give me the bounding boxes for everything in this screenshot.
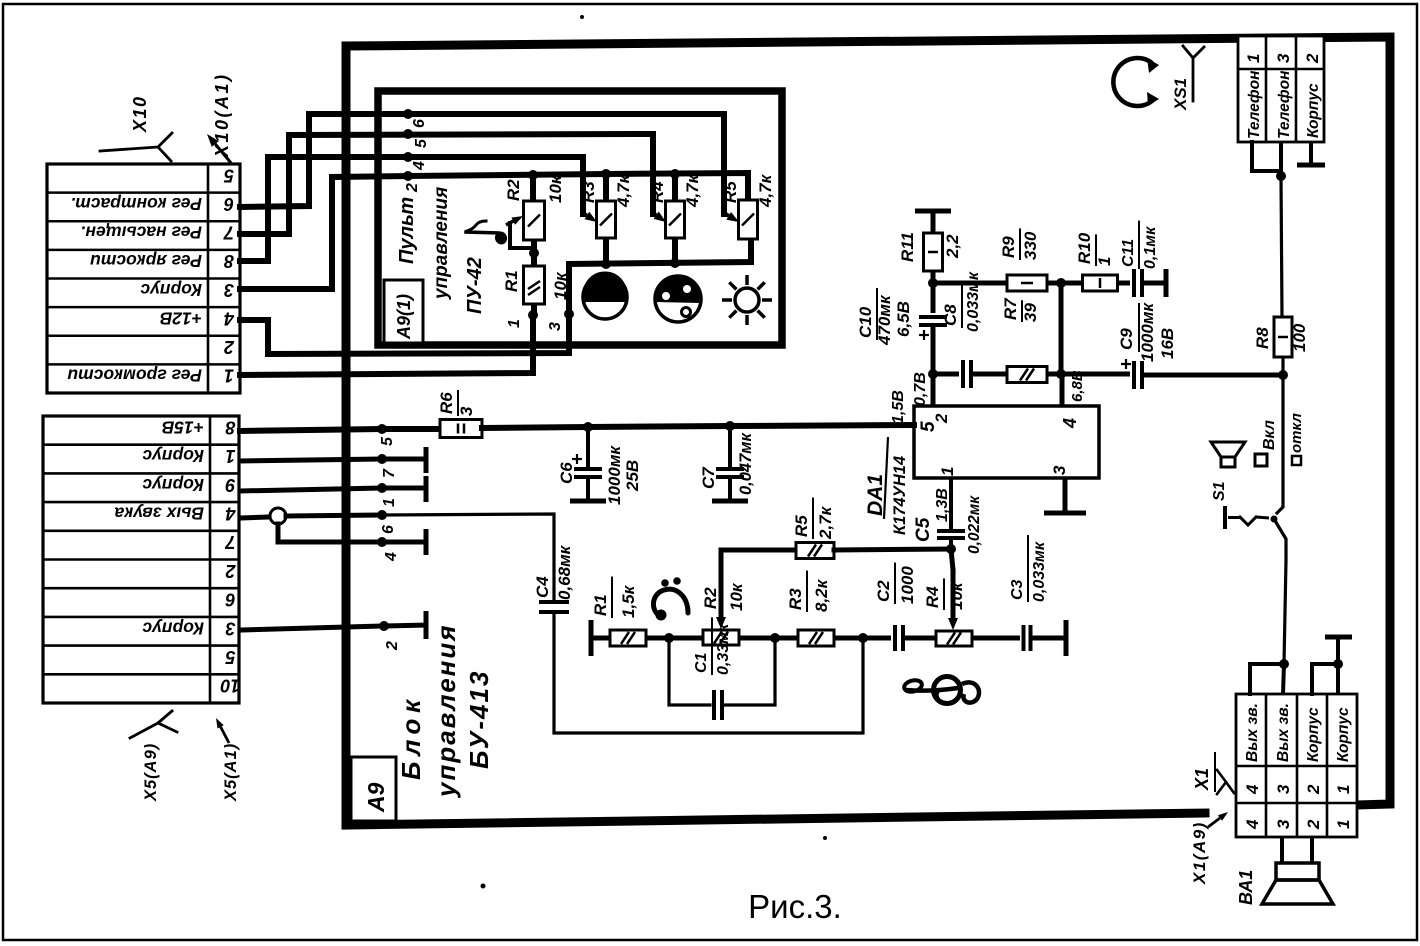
wire R9-R10 [1047,278,1083,288]
svg-text:5: 5 [379,436,396,446]
svg-text:Рег контраст.: Рег контраст. [71,194,202,214]
potentiometer R4 (PU) [648,173,702,238]
svg-text:4: 4 [224,308,235,328]
wire R3-C2 [834,633,891,643]
node A9 pin2 [379,621,401,651]
svg-text:R11: R11 [898,232,917,262]
wire circle loop to pin4 stub [278,524,426,555]
svg-text:7: 7 [381,468,398,478]
wire pots bottom rail [569,238,751,264]
X1 pin4 hook [1250,664,1284,694]
svg-text:X1: X1 [1192,768,1212,791]
svg-text:R3: R3 [786,588,805,610]
svg-text:1000мк: 1000мк [1138,302,1157,362]
connector XS1 table [1238,36,1324,142]
svg-text:C7: C7 [699,466,718,489]
text управления [431,623,461,799]
svg-text:4: 4 [1243,784,1262,795]
svg-text:R7: R7 [1001,297,1020,320]
switch S1 arm [1271,516,1287,665]
svg-text:0,022мк: 0,022мк [966,495,983,554]
node R4 top [670,169,680,179]
svg-text:2: 2 [1304,819,1323,830]
wire C9 to R8 node [1142,373,1283,378]
connector X1 table [1236,694,1357,837]
R2 wiper loop [506,216,534,248]
R4 wiper from C5 node [948,549,958,630]
wire R4 bottom lead [672,238,678,263]
svg-text:2: 2 [1304,784,1323,795]
svg-text:R4: R4 [923,586,942,608]
svg-text:Рег громкости: Рег громкости [67,366,202,386]
R3 wiper arrow [583,212,597,222]
op-amp DA1 box [914,406,1099,478]
X1 pin3 lead [1283,664,1284,694]
label X5(A9) [142,743,160,802]
svg-text:Корпус: Корпус [1305,707,1322,762]
potentiometer R2 (PU) [504,174,565,240]
wire C2-R4 [903,636,936,641]
XS1 fork symbol [1183,46,1204,101]
svg-text:C2: C2 [874,580,893,602]
wire rail2 C8 [933,372,959,377]
wire R8 to node [1281,357,1284,375]
svg-text:4,7к: 4,7к [756,173,775,208]
wire R9/R10 node to pin4 node [1059,283,1064,374]
X1 ground terminal [1325,637,1352,694]
wire R1-R2 [646,633,703,643]
svg-text:1: 1 [1334,820,1353,829]
node PU pin2 [403,171,421,193]
svg-text:3: 3 [224,280,234,300]
wire C8-R7 [971,372,1007,377]
capacitor C5 [913,478,983,554]
svg-text:R1: R1 [502,270,521,292]
node PU pin4 [403,152,428,171]
node PU pin3 [547,309,574,331]
svg-text:4: 4 [1060,418,1080,429]
potentiometer R2 (BU) [701,579,746,645]
node A9 pin7 [377,454,398,478]
wire X5 pin8 +15V rail [240,429,440,431]
label S1 [1211,481,1228,501]
resistor R3 (BU) [786,571,834,646]
wire X10 pin7 to PU pin5 / R4 wiper [240,134,653,234]
text ПУ-42 [464,257,486,314]
node C7 top [725,421,735,431]
node A9 pin6 [377,510,397,534]
svg-text:3: 3 [225,618,235,638]
block A9 (BU-413) outline [346,37,1390,825]
svg-text:8: 8 [225,417,235,437]
svg-text:C11: C11 [1120,239,1137,267]
svg-text:C5: C5 [913,517,934,542]
svg-text:Пульт: Пульт [396,197,418,264]
node PU pin5 [403,129,430,148]
R5 wiper arrow [724,212,739,222]
svg-text:470мк: 470мк [875,294,894,346]
svg-text:4: 4 [225,503,236,523]
wire R3 bottom lead [603,238,609,264]
svg-text:C10: C10 [856,306,875,338]
svg-text:управления: управления [431,187,452,300]
capacitor C1 [669,617,775,720]
audio out circle [270,508,286,524]
svg-text:X5(A1): X5(A1) [222,743,240,802]
svg-text:2: 2 [1303,53,1322,64]
volume note symbol [466,221,509,246]
svg-text:A9: A9 [363,782,389,813]
capacitor C6 [557,427,642,505]
svg-text:8: 8 [224,251,234,271]
X1 fork symbol [1217,770,1234,794]
node A9 pin5 [377,424,396,446]
resistor R5 (BU) [792,498,835,559]
resistor R11 [898,211,962,283]
svg-text:4,7к: 4,7к [614,173,633,208]
svg-text:10к: 10к [947,581,966,610]
svg-text:A9(1): A9(1) [394,294,414,340]
wire R3 top lead [603,174,609,201]
voltage 6,8В [1069,370,1086,402]
svg-text:К174УН14: К174УН14 [891,456,909,535]
capacitor C9 [1117,302,1177,389]
svg-text:Корпус: Корпус [1305,83,1322,138]
svg-text:25В: 25В [623,460,642,492]
svg-text:Рис.3.: Рис.3. [748,888,842,925]
svg-text:1: 1 [938,467,957,476]
svg-text:C6: C6 [557,462,576,484]
label X5(A1) [222,743,240,802]
svg-text:5: 5 [223,165,234,185]
wire circle to pin6 [286,515,382,516]
svg-text:C8: C8 [941,304,960,326]
svg-text:9: 9 [225,475,235,495]
svg-text:2,2: 2,2 [943,234,962,259]
svg-text:2: 2 [224,337,235,357]
svg-text:1: 1 [381,498,398,507]
potentiometer R4 (BU) [923,578,972,646]
node R3 top [601,169,611,179]
svg-text:7: 7 [225,532,236,552]
svg-text:S1: S1 [1211,481,1228,501]
node PU pin6 [403,109,428,128]
svg-text:X1(A9): X1(A9) [1190,821,1209,885]
svg-text:330: 330 [1021,231,1040,260]
svg-text:6: 6 [225,590,236,610]
wire X5 pin3 stub [240,611,426,639]
svg-text:Корпус: Корпус [142,446,204,466]
svg-text:0,033мк: 0,033мк [1031,541,1048,602]
svg-text:2,7к: 2,7к [816,505,835,540]
text управления PU [431,187,452,300]
node ground X1 [1333,659,1343,669]
svg-text:C1: C1 [693,652,710,673]
svg-text:0,033мк: 0,033мк [965,271,982,332]
svg-text:R9: R9 [999,236,1018,258]
Вкл switch position [1255,420,1278,466]
svg-text:1000: 1000 [898,566,917,604]
svg-text:Рег яркости: Рег яркости [90,251,202,271]
svg-text:Корпус: Корпус [1335,707,1352,762]
DA1 pin4 label [1060,418,1080,429]
svg-text:X5(A9): X5(A9) [142,743,160,802]
node C6 top [583,422,593,432]
svg-text:4: 4 [411,161,428,171]
capacitor C3 [1009,535,1048,651]
svg-text:БУ-413: БУ-413 [464,670,494,769]
wire R4 top lead [672,174,678,201]
label box A9(1) [384,280,423,343]
svg-text:0,33мк: 0,33мк [715,623,732,675]
node C5 bottom [946,544,956,554]
svg-text:4: 4 [383,552,400,562]
svg-text:3: 3 [547,322,564,331]
wire +15V rail to DA1 [482,425,914,428]
connector X5 table [43,416,241,703]
wire R2 top lead [530,176,536,201]
svg-text:1: 1 [1095,257,1114,266]
svg-text:ПУ-42: ПУ-42 [464,257,486,314]
wire X10 pin4 (+12V) to PU pin3 [240,264,569,354]
svg-text:R10: R10 [1075,232,1094,264]
svg-text:1000мк: 1000мк [605,445,624,505]
paper speck [580,15,584,19]
svg-text:R3: R3 [579,181,598,203]
wire R2-R1 node [529,240,539,266]
svg-text:8,2к: 8,2к [812,578,831,612]
wire C4 to bottom rail [554,612,863,733]
svg-text:Вых зв.: Вых зв. [1244,703,1261,762]
capacitor C11 [1120,221,1166,297]
contrast icon [583,271,627,319]
svg-text:1: 1 [1334,785,1353,794]
svg-text:R2: R2 [504,179,523,201]
DA1 pin3 ground [1044,478,1086,513]
svg-text:2: 2 [384,641,401,651]
speaker symbol small [1211,442,1245,467]
svg-text:5: 5 [225,647,236,667]
wire X10 pin1 to PU pin1 (R1 bottom) [240,315,533,375]
svg-text:3: 3 [457,406,476,416]
resistor R8 [1253,317,1309,357]
svg-text:Телефон: Телефон [1276,70,1293,139]
svg-text:Корпус: Корпус [140,280,202,300]
svg-text:C4: C4 [533,576,552,598]
node A9 pin1 [377,483,398,507]
node C10 bottom [928,369,938,379]
wire R1 bottom lead [531,304,537,315]
X1 pin2 hook [1312,664,1338,694]
svg-text:R6: R6 [437,392,456,414]
X5(A1) arrow [216,718,229,743]
wire R4-C3 [972,636,1020,641]
XS1 pin2 ground lead [1297,142,1325,165]
svg-text:2: 2 [932,413,951,424]
voltage 1,5В [890,390,907,424]
label box A9 [351,757,396,821]
svg-text:0,047мк: 0,047мк [737,432,755,495]
wire DA1 pin2 lead [931,374,936,406]
DA1 pin2 label [932,413,951,424]
wire X10 pin6 to PU pin6 / R5 wiper [240,114,724,214]
svg-text:1: 1 [225,446,235,466]
svg-text:Телефон: Телефон [1246,70,1263,139]
label X1 [1192,752,1215,792]
capacitor C7 [699,426,755,501]
node R4 bottom [670,258,680,268]
resistor R9 [999,228,1047,291]
bass clef icon [653,577,688,620]
svg-text:Вых звука: Вых звука [114,503,204,523]
text Блок [396,694,426,780]
откл switch position [1288,413,1305,465]
svg-text:R5: R5 [721,181,740,203]
svg-text:6: 6 [223,194,234,214]
svg-text:2: 2 [404,183,421,193]
caption [748,888,842,925]
node R2 top [528,170,538,180]
voltage 0,7В [912,372,929,406]
svg-text:4: 4 [1243,819,1262,830]
wire PU pin2 rail [408,173,748,199]
wire R2-R3 [739,633,798,643]
svg-text:R2: R2 [701,587,720,609]
label X10(A1) [212,72,232,158]
svg-text:10к: 10к [546,174,565,203]
wire X5 pin9 stub [240,476,426,502]
svg-text:ВА1: ВА1 [1236,870,1256,905]
wire rail R9 [933,281,1007,286]
svg-text:3: 3 [1274,819,1293,829]
svg-text:6: 6 [380,525,397,534]
X5(A9) fork symbol [130,711,177,738]
svg-text:3: 3 [1050,465,1069,475]
label BA1 [1236,870,1256,905]
svg-text:10к: 10к [727,582,746,611]
node R8 bottom [1278,370,1288,380]
wire audio to C4 [382,514,554,602]
svg-text:+12В: +12В [160,308,202,328]
capacitor C2 [874,563,917,651]
S1 actuator [1225,506,1269,529]
resistor R7 [1001,297,1047,383]
svg-text:R1: R1 [591,594,610,616]
wire C3 to terminal [1031,620,1066,656]
node R11 bottom [928,278,938,288]
wire DA1 pin4 lead [1060,374,1065,406]
svg-text:3: 3 [1274,53,1293,63]
saturation icon [655,276,701,322]
wire X5 pin1 stub [240,447,426,473]
svg-text:16В: 16В [1158,328,1177,359]
DA1 pin3 label [1050,465,1069,475]
text БУ-413 [464,670,494,769]
paper speck [481,884,486,889]
svg-text:1: 1 [1244,54,1263,63]
resistor R10 [1075,232,1118,291]
resistor R1 (BU) [591,577,646,646]
svg-text:X10: X10 [130,95,150,133]
wire node to C9 [1061,372,1130,377]
speaker BA1 [1262,837,1333,904]
label XS1 [1171,78,1190,111]
wire node to S1 [1277,375,1283,513]
resistor R1 (PU) [502,266,570,304]
wire XS1 to R8 [1281,176,1282,317]
svg-text:управления: управления [431,623,461,799]
X10(A1) arrow [207,134,231,163]
input terminal bar [589,620,594,656]
resistor R6 [437,390,482,438]
svg-text:39: 39 [1021,303,1040,322]
label X1(A9) [1190,821,1209,885]
svg-text:R8: R8 [1253,327,1272,349]
wire input to R1 [591,636,610,641]
svg-text:0,1мк: 0,1мк [1142,226,1159,269]
node A9 pin4 [377,537,400,562]
text Пульт [396,197,418,264]
svg-text:5: 5 [413,138,430,148]
X10 fork symbol [100,133,172,161]
svg-text:1: 1 [224,366,234,386]
svg-text:откл: откл [1288,413,1305,453]
brightness icon [722,275,772,325]
node R3 bottom [601,259,611,269]
wire R7 to node [1047,369,1066,379]
label DA1 [864,437,909,535]
wire X10 pin3 to PU pin2 rail [240,176,408,289]
svg-text:2: 2 [225,561,236,581]
potentiometer R5 (PU) [721,173,775,239]
potentiometer R3 (PU) [579,173,633,238]
node S1-X1 [1279,659,1289,669]
svg-text:100: 100 [1290,323,1309,352]
svg-text:Корпус: Корпус [142,618,204,638]
paper speck [823,836,827,840]
svg-text:0,68мк: 0,68мк [555,544,574,600]
wire R10-C11 [1118,281,1130,286]
wire R5 to C5 node [834,549,951,550]
svg-text:1,3В: 1,3В [934,488,951,522]
svg-text:Блок: Блок [396,694,426,780]
block A9(1) PU-42 outline [378,91,782,345]
svg-text:Вкл: Вкл [1261,420,1278,450]
svg-text:10к: 10к [551,271,570,300]
XS1 pin1 lead [1252,142,1281,171]
XS1 pin3 lead [1276,142,1286,181]
svg-text:7: 7 [223,223,234,243]
svg-text:Корпус: Корпус [142,475,204,495]
wire X5 pin4 audio out [240,517,270,518]
R2 wiper to R5 [716,550,796,629]
headphones icon [1113,58,1159,106]
svg-text:4,7к: 4,7к [683,173,702,208]
svg-text:1,5В: 1,5В [890,390,907,424]
capacitor C4 [533,539,574,612]
X1(A9) arrow [1208,812,1228,827]
capacitor C8 [941,271,982,388]
svg-text:1: 1 [506,319,523,328]
svg-text:6,5В: 6,5В [894,301,913,337]
svg-text:Вых зв.: Вых зв. [1275,703,1292,762]
svg-text:3: 3 [1274,784,1293,794]
svg-text:C3: C3 [1009,579,1026,600]
capacitor C10 [856,283,947,374]
DA1 pin1 label [938,467,957,476]
svg-text:R4: R4 [648,181,667,203]
R4 wiper arrow [653,212,666,223]
